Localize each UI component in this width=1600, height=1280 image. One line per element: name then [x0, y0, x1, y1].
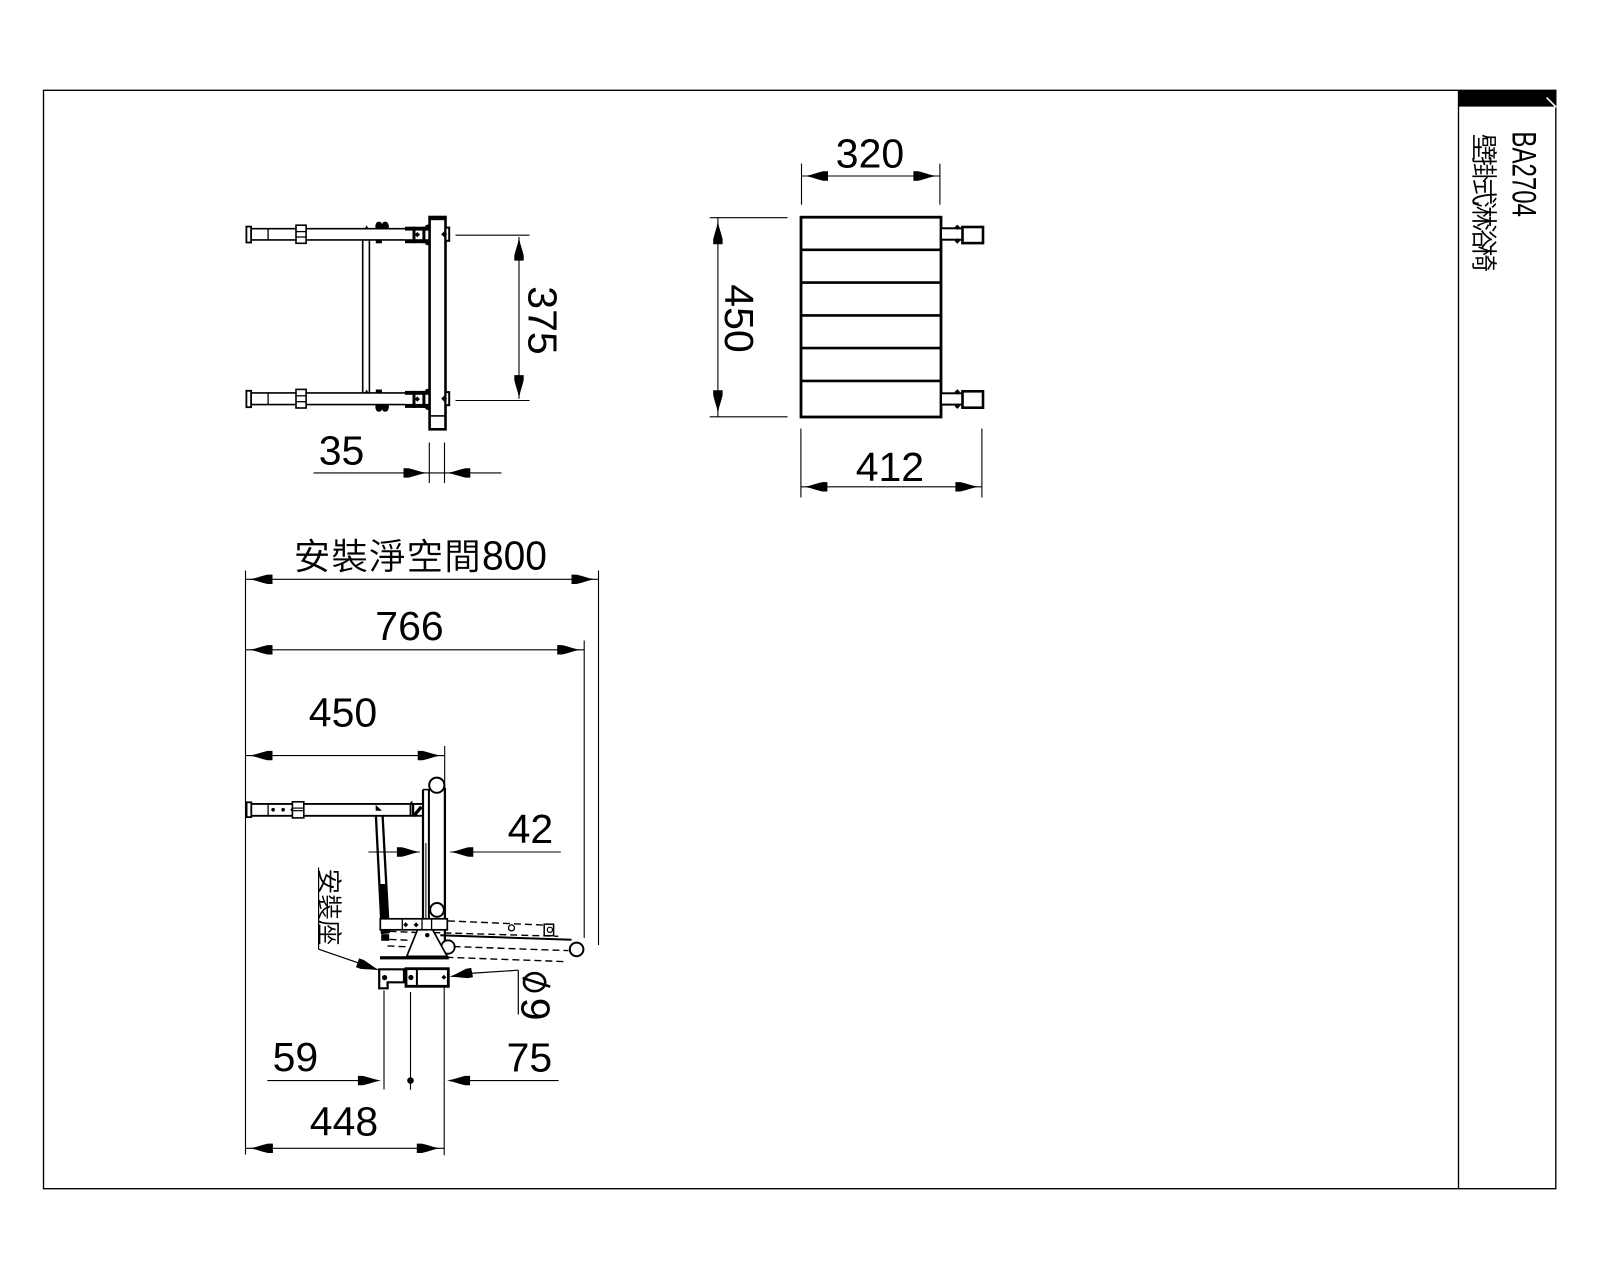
cross tube between arms: [363, 240, 370, 393]
lower arm assembly: [246, 388, 429, 411]
dimension 766: [246, 603, 585, 938]
svg-text:42: 42: [508, 806, 554, 852]
rail collar: [292, 802, 303, 818]
rail-column junction: [409, 801, 421, 817]
clamp sleeve: [405, 227, 425, 244]
seat column (folded up): [423, 778, 445, 941]
dimension 75: [444, 987, 558, 1155]
svg-text:9: 9: [513, 998, 559, 1021]
clamp sleeve: [405, 391, 425, 408]
stop wedge: [365, 225, 369, 228]
seat slat gaps: [801, 250, 941, 381]
svg-text:448: 448: [310, 1099, 378, 1145]
wall rail (side view): [247, 802, 423, 817]
upper wall tab: [441, 228, 449, 241]
seat tube end circle (phantom): [570, 943, 584, 957]
dimension 412: [801, 429, 982, 498]
shared hole center line: [407, 992, 414, 1090]
seat panel (top view): [801, 217, 941, 417]
gusset trapezoid: [380, 930, 449, 960]
svg-text:450: 450: [716, 284, 762, 352]
arm tube: [251, 228, 405, 230]
svg-text:766: 766: [375, 603, 443, 649]
tube joint line: [267, 229, 269, 240]
weld flanges at plate: [425, 388, 429, 395]
title text 壁掛式淋浴椅 (rotated): [1472, 135, 1497, 271]
wall anchor base plate: [406, 969, 448, 987]
text φ9 (rotated): [513, 973, 559, 1020]
stop wedge: [365, 390, 369, 393]
hinge hump blobs: [375, 225, 388, 229]
dimension 448: [246, 1099, 445, 1153]
svg-text:320: 320: [836, 131, 904, 177]
dimension 375: [456, 235, 566, 400]
wall plate (side view): [428, 217, 446, 430]
svg-text:BA2704: BA2704: [1505, 131, 1543, 217]
seat pivot bracket bar: [380, 919, 447, 930]
hinge tab: [376, 240, 382, 243]
folding strut: [376, 805, 389, 934]
lower mounting stud: [941, 389, 983, 409]
dimension 59: [267, 991, 384, 1090]
dimension 450 (rail): [246, 690, 445, 784]
svg-text:800: 800: [482, 534, 547, 579]
svg-text:450: 450: [309, 690, 377, 736]
svg-text:375: 375: [520, 286, 566, 354]
svg-text:59: 59: [273, 1034, 319, 1080]
wall anchor L-plate: [379, 969, 404, 988]
strut lower block: [381, 934, 389, 941]
phantom seat collar: [544, 924, 553, 936]
svg-text:412: 412: [856, 444, 924, 490]
label 安裝座 (rotated) with leader: [318, 868, 379, 971]
arm end cap: [246, 227, 251, 243]
title text BA2704 (rotated): [1505, 131, 1543, 217]
svg-text:35: 35: [319, 428, 365, 474]
phantom pivot circle small: [509, 925, 515, 931]
pivot circle (seat down): [441, 940, 454, 953]
weld flanges at plate: [425, 224, 429, 231]
upper arm assembly: [246, 222, 429, 246]
tube joint line: [267, 393, 269, 405]
label 安裝淨空間800: [296, 534, 547, 579]
hinge tab: [376, 390, 382, 393]
dimension 800: [246, 571, 599, 1155]
hinge hump blobs: [375, 405, 388, 409]
adjusting collar: [296, 225, 306, 243]
dimension 42: [368, 806, 560, 857]
dimension 35: [314, 428, 502, 484]
svg-text:75: 75: [507, 1035, 553, 1081]
arm tube: [251, 392, 405, 394]
title block black bar: [1459, 90, 1557, 107]
adjusting collar: [296, 389, 306, 408]
lower wall tab: [441, 392, 449, 405]
leader φ9: [450, 968, 519, 1015]
dimension 320: [802, 131, 940, 205]
dimension 450 (seat): [710, 218, 788, 417]
arm end cap: [246, 391, 251, 407]
phantom seat (folded down) dashed: [388, 921, 572, 962]
upper mounting stud: [941, 225, 983, 244]
